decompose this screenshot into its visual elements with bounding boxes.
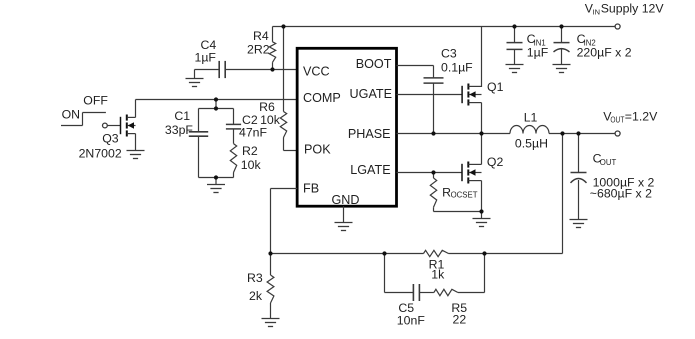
svg-text:2R2: 2R2: [247, 43, 270, 57]
svg-text:0.5µH: 0.5µH: [515, 137, 548, 151]
svg-text:~680µF x 2: ~680µF x 2: [590, 186, 652, 200]
svg-text:R2: R2: [242, 144, 258, 158]
svg-text:BOOT: BOOT: [356, 57, 392, 71]
svg-text:33pF: 33pF: [165, 123, 194, 137]
svg-text:0.1µF: 0.1µF: [441, 61, 473, 75]
svg-text:C1: C1: [174, 109, 190, 123]
svg-text:L1: L1: [524, 111, 538, 125]
svg-text:Q2: Q2: [487, 155, 504, 169]
svg-text:10nF: 10nF: [397, 314, 426, 328]
svg-text:220µF x 2: 220µF x 2: [577, 46, 632, 60]
svg-text:1k: 1k: [431, 267, 445, 281]
svg-text:=1.2V: =1.2V: [625, 109, 658, 123]
svg-text:OFF: OFF: [83, 94, 108, 108]
svg-text:GND: GND: [332, 193, 360, 207]
svg-text:Q1: Q1: [487, 80, 504, 94]
svg-text:IN: IN: [593, 8, 601, 17]
svg-text:R3: R3: [247, 271, 263, 285]
svg-text:ON: ON: [62, 107, 80, 121]
svg-text:VCC: VCC: [303, 65, 330, 79]
svg-text:OUT: OUT: [610, 116, 624, 125]
svg-text:R4: R4: [253, 29, 269, 43]
svg-text:10k: 10k: [241, 158, 262, 172]
svg-text:PHASE: PHASE: [348, 127, 391, 141]
svg-text:1µF: 1µF: [527, 46, 549, 60]
svg-text:FB: FB: [303, 182, 319, 196]
svg-text:47nF: 47nF: [239, 125, 268, 139]
svg-text:Q3: Q3: [102, 131, 119, 145]
svg-text:1µF: 1µF: [195, 51, 217, 65]
svg-text:2k: 2k: [249, 289, 263, 303]
svg-text:C3: C3: [441, 47, 457, 61]
svg-text:Supply 12V: Supply 12V: [601, 1, 665, 15]
svg-text:22: 22: [453, 312, 467, 326]
svg-text:OUT: OUT: [600, 158, 617, 167]
svg-text:POK: POK: [304, 143, 331, 157]
svg-text:COMP: COMP: [303, 91, 341, 105]
svg-text:LGATE: LGATE: [350, 163, 390, 177]
svg-text:OCSET: OCSET: [451, 191, 478, 200]
svg-text:UGATE: UGATE: [350, 87, 392, 101]
svg-text:2N7002: 2N7002: [79, 146, 122, 160]
